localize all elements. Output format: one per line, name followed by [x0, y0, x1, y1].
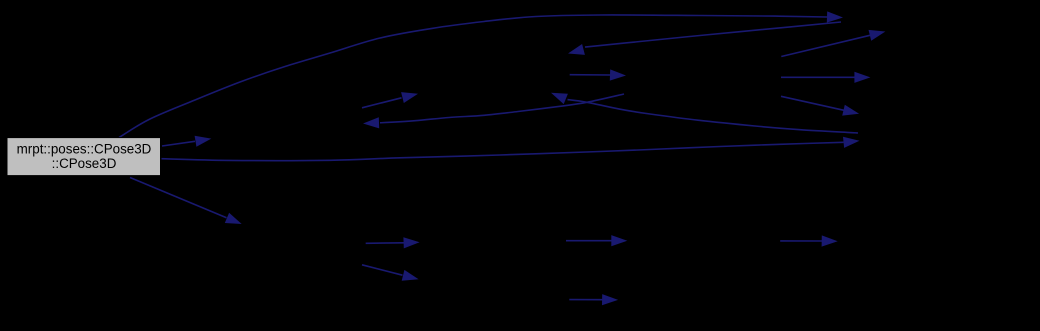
svg-text:::CPose3D: ::CPose3D [52, 156, 117, 171]
svg-text:mrpt::poses::CPose3D: mrpt::poses::CPose3D [17, 141, 152, 156]
